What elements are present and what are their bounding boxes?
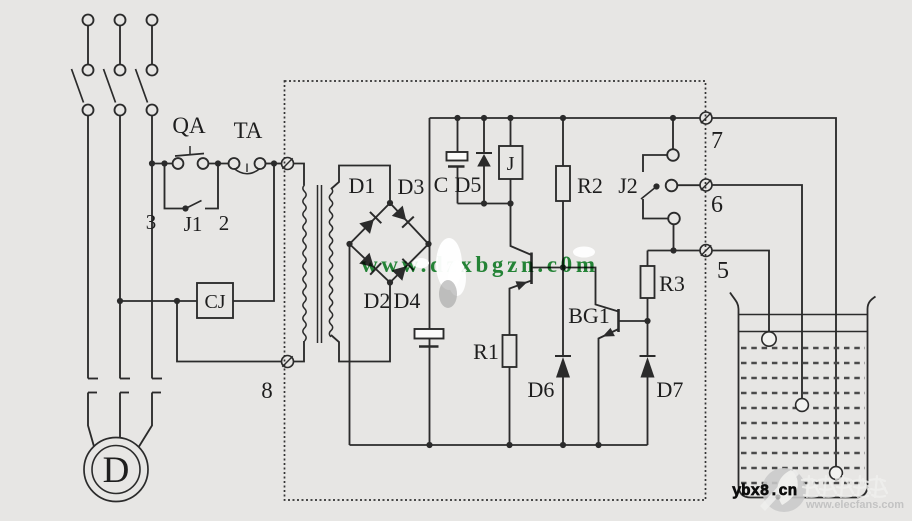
svg-text:D5: D5 [455,172,482,197]
svg-text:J1: J1 [184,212,203,236]
knife switch phase A [72,65,94,116]
resistor R2 [556,118,570,356]
bridge arm wires [346,200,431,286]
wire phase B to CJ coil [117,298,197,304]
svg-text:D2: D2 [364,288,391,313]
label D6 [528,377,555,402]
wire terminal 8 to primary bottom [294,341,305,362]
pushbutton QA [173,146,209,169]
label C [434,172,449,197]
terminal 5 [700,245,712,257]
wire phase A upper [87,26,89,65]
wire secondary top to bridge [331,166,390,204]
water surface lines [739,315,868,332]
svg-text:ybx8.cn: ybx8.cn [732,482,797,500]
ybx8.cn text [732,482,797,500]
label TA [234,118,263,143]
wire bridge negative to bottom rail [349,244,351,445]
bottom rail wire [350,442,648,448]
relay contact J2 movable arm [641,183,660,199]
label D3 [398,174,425,199]
label D4 [394,288,421,313]
svg-text:BG1: BG1 [568,303,610,328]
transistor BG1 collector wire [563,268,619,312]
bridge diode D4 [392,259,414,281]
bridge diode D2 [359,253,381,275]
svg-text:D4: D4 [394,288,421,313]
relay contact J1 branch wire right [205,164,218,209]
svg-text:5: 5 [717,258,729,284]
label 7 [711,128,723,154]
svg-text:3: 3 [146,210,157,234]
label D1 [349,173,376,198]
svg-text:D7: D7 [657,377,684,402]
wire phase A main drop [87,116,89,379]
resistor R1 [503,335,517,445]
transistor BG2 [510,253,564,336]
wire phase C upper [151,26,153,65]
motor D [84,438,148,502]
svg-text:D: D [103,450,130,491]
svg-text:6: 6 [711,192,723,218]
wire filter cap to bottom rail [429,339,431,446]
svg-text:CJ: CJ [204,291,225,313]
green watermark text [361,252,595,277]
gray smudge [439,280,457,308]
supply terminal B [115,15,126,26]
water hatch dashes [741,348,865,483]
svg-text:QA: QA [172,113,206,138]
relay coil J [499,118,523,204]
terminal 8 [282,356,294,368]
wire terminal 5 to shallow probe [712,251,769,332]
label D7 [657,377,684,402]
label BG1 [568,303,610,328]
wire phase B to motor [119,393,121,438]
wire terminal 7 to deep probe [712,118,836,467]
transistor BG2 collector wire [511,204,532,256]
diode D7 [640,356,656,445]
wire terminal to transformer primary top [294,164,305,186]
relay contact J1 [182,201,201,212]
wire C / D5 / J common [458,200,514,206]
current transformer TA [229,158,266,174]
wire QA to TA [209,160,229,166]
contactor CJ main contact phase B [120,379,130,393]
label J1 [184,212,203,236]
wire phase C to motor [139,393,152,447]
elecfans leaf logo [760,468,806,512]
svg-text:D1: D1 [349,173,376,198]
diode D5 [476,118,492,204]
transformer core [318,185,322,343]
svg-text:D6: D6 [528,377,555,402]
wire CJ coil to QA row [233,164,274,302]
svg-text:R1: R1 [473,339,499,364]
svg-text:C: C [434,172,449,197]
diode D6 [555,356,571,445]
dashed control-box border [285,81,706,500]
shallow probe electrode [762,332,776,346]
middle probe electrode [796,399,809,412]
terminal 6 [700,179,712,191]
water tank body [730,293,876,498]
contactor CJ main contact phase C [152,379,162,393]
label 6 [711,192,723,218]
relay contact J2 upper fixed contact [643,118,679,172]
label R1 [473,339,499,364]
white blot small left [413,258,429,268]
white blot large [436,238,466,296]
label 2 [219,211,230,235]
bridge diode D3 [392,206,414,228]
relay contact J1 branch wire left [165,164,184,209]
label J2 [618,173,638,198]
wire QA row left + junction on phase C [149,160,173,166]
elecfans chinese watermark [802,476,887,497]
relay contact J2 lower fixed contact [643,199,680,251]
elecfans url watermark [805,499,904,511]
svg-text:8: 8 [261,378,273,403]
label R2 [577,173,603,198]
svg-text:7: 7 [711,128,723,154]
deep probe electrode [830,467,843,480]
transformer primary winding [303,185,306,341]
svg-text:www.dzxbgzn.c0m: www.dzxbgzn.c0m [361,252,595,277]
resistor R3 [641,251,655,357]
top supply rail wire [430,115,701,121]
svg-text:R3: R3 [659,271,685,296]
label 3 [146,210,157,234]
label D5 [455,172,482,197]
wire phase A to motor [88,393,94,447]
svg-text:J: J [507,153,515,175]
label R3 [659,271,685,296]
contactor coil CJ [197,283,233,318]
supply terminal C [147,15,158,26]
svg-text:TA: TA [234,118,263,143]
wire to terminal 8 [177,301,282,362]
knife switch phase B [104,65,126,116]
terminal 7 [700,112,712,124]
wire terminal 5 row [648,247,701,253]
white blot right [573,247,595,258]
svg-text:2: 2 [219,211,230,235]
wire TA to terminal [266,160,282,166]
svg-text:D3: D3 [398,174,425,199]
label 8 [261,378,273,403]
transistor BG1 [599,309,651,445]
wire terminal 6 to middle probe [712,185,802,399]
terminal (transformer primary top) [282,158,294,170]
transformer secondary winding [329,188,332,337]
wire phase B upper [119,26,121,65]
label 5 [717,258,729,284]
relay contact J2 common [666,180,700,192]
electrolytic capacitor (filter) [415,329,444,347]
contactor CJ main contact phase A [88,379,98,393]
supply terminal A [83,15,94,26]
svg-text:www.elecfans.com: www.elecfans.com [805,499,904,511]
wire phase C main drop [151,116,153,379]
capacitor C [447,118,468,204]
knife switch phase C [136,65,158,116]
svg-text:R2: R2 [577,173,603,198]
label QA [172,113,206,138]
wire top rail to bridge positive [429,118,431,329]
wire secondary bottom to bridge [331,283,390,362]
label D2 [364,288,391,313]
svg-text:J2: J2 [618,173,638,198]
bridge diode D1 [359,212,381,234]
wire phase B main drop [119,116,121,379]
